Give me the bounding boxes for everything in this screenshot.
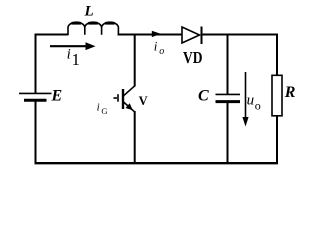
svg-text:R: R	[284, 84, 296, 101]
battery E short thick plate	[24, 99, 47, 102]
svg-text:o: o	[255, 99, 261, 113]
wire bottom	[35, 162, 279, 164]
svg-text:E: E	[51, 88, 63, 105]
battery E long plate	[19, 92, 52, 94]
current arrow io	[152, 31, 161, 37]
wire left vertical lower	[35, 101, 37, 165]
resistor R top lead	[276, 34, 278, 76]
transistor V collector wire	[134, 34, 136, 87]
svg-text:i: i	[154, 38, 158, 53]
svg-text:i: i	[97, 102, 100, 114]
capacitor C plates	[216, 94, 241, 101]
capacitor C bottom lead	[227, 103, 229, 164]
svg-text:o: o	[159, 46, 164, 57]
svg-text:L: L	[84, 3, 94, 19]
svg-text:i: i	[67, 47, 71, 63]
svg-text:G: G	[101, 106, 107, 116]
wire top middle segment	[118, 34, 183, 36]
wire left vertical upper	[35, 34, 37, 93]
transistor V emitter wire	[134, 111, 136, 164]
svg-text:VD: VD	[183, 48, 203, 67]
voltage arrow uo	[242, 72, 248, 127]
resistor R bottom lead	[276, 116, 278, 164]
transistor V	[114, 86, 135, 112]
resistor R body	[272, 75, 282, 116]
current arrow i1	[50, 42, 96, 50]
wire top left segment	[35, 34, 69, 36]
inductor L	[68, 22, 118, 35]
svg-text:V: V	[139, 94, 148, 108]
svg-text:1: 1	[72, 50, 81, 69]
capacitor C top lead	[227, 34, 229, 95]
svg-text:C: C	[198, 88, 209, 105]
svg-text:u: u	[247, 92, 255, 108]
diode VD	[182, 27, 202, 45]
wire top right segment	[202, 34, 279, 36]
